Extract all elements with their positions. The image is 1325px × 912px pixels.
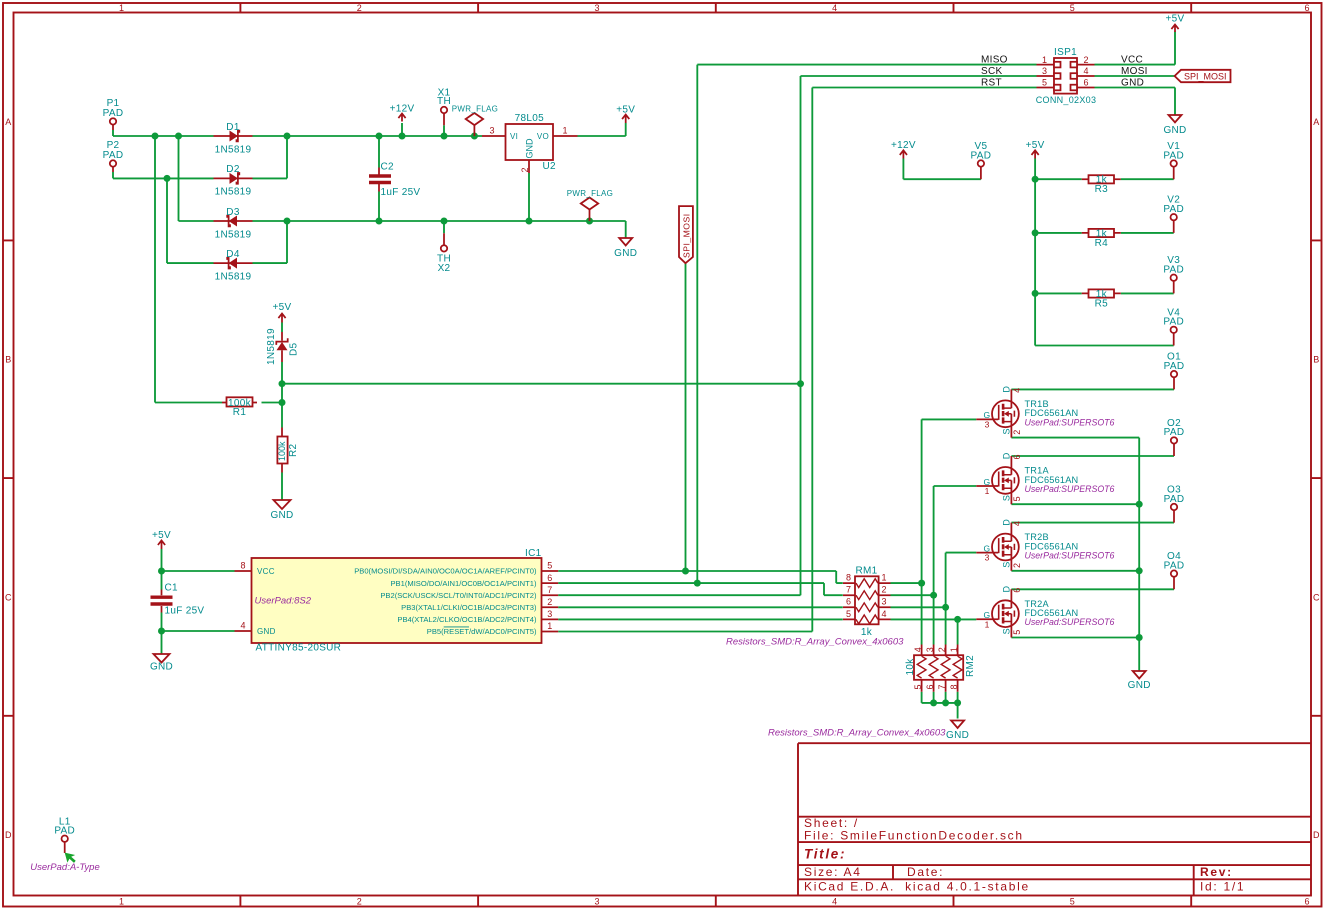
svg-text:3: 3	[985, 553, 990, 563]
svg-text:VCC: VCC	[257, 567, 275, 576]
svg-text:6: 6	[1304, 897, 1309, 907]
svg-text:2: 2	[1012, 430, 1022, 435]
svg-text:1: 1	[562, 126, 567, 136]
svg-text:+5V: +5V	[616, 105, 635, 116]
svg-text:1: 1	[985, 619, 990, 629]
svg-text:R3: R3	[1095, 184, 1109, 195]
svg-text:UserPad:SUPERSOT6: UserPad:SUPERSOT6	[1025, 484, 1115, 494]
svg-text:U2: U2	[543, 161, 557, 172]
svg-text:4: 4	[913, 647, 923, 652]
svg-text:5: 5	[547, 561, 552, 571]
svg-text:1uF 25V: 1uF 25V	[381, 187, 421, 198]
svg-text:R5: R5	[1095, 298, 1109, 309]
svg-text:10k: 10k	[905, 658, 916, 676]
svg-text:PAD: PAD	[1163, 150, 1184, 161]
svg-text:PAD: PAD	[971, 150, 992, 161]
svg-text:UserPad:A-Type: UserPad:A-Type	[30, 862, 100, 873]
svg-text:PAD: PAD	[1164, 427, 1185, 438]
svg-text:C: C	[5, 592, 12, 602]
svg-text:PB4(XTAL2/CLKO/OC1B/ADC2/PCINT: PB4(XTAL2/CLKO/OC1B/ADC2/PCINT4)	[397, 615, 537, 624]
svg-text:5: 5	[1012, 496, 1022, 501]
svg-text:GND: GND	[946, 730, 969, 741]
svg-text:+5V: +5V	[152, 530, 171, 541]
svg-text:3: 3	[925, 647, 935, 652]
svg-text:R4: R4	[1095, 238, 1109, 249]
svg-text:1: 1	[119, 3, 124, 13]
svg-text:5: 5	[1042, 78, 1047, 88]
svg-text:5: 5	[846, 609, 851, 619]
svg-text:+5V: +5V	[1166, 13, 1185, 24]
svg-text:RST: RST	[981, 77, 1002, 88]
svg-text:PAD: PAD	[1163, 204, 1184, 215]
svg-text:A: A	[5, 117, 11, 127]
svg-text:4: 4	[1012, 521, 1022, 526]
svg-text:File: SmileFunctionDecoder.sch: File: SmileFunctionDecoder.sch	[804, 829, 1024, 843]
svg-text:2: 2	[881, 585, 886, 595]
svg-text:GND: GND	[1121, 77, 1144, 88]
svg-text:MISO: MISO	[981, 55, 1008, 66]
svg-text:UserPad:SUPERSOT6: UserPad:SUPERSOT6	[1025, 551, 1115, 561]
svg-text:D: D	[1002, 386, 1012, 393]
svg-text:5: 5	[913, 684, 923, 689]
svg-text:S: S	[1002, 562, 1012, 568]
svg-text:ISP1: ISP1	[1054, 47, 1077, 58]
svg-text:PAD: PAD	[1164, 494, 1185, 505]
svg-text:PB3(XTAL1/CLKI/OC1B/ADC3/PCINT: PB3(XTAL1/CLKI/OC1B/ADC3/PCINT3)	[401, 603, 537, 612]
svg-text:UserPad:SUPERSOT6: UserPad:SUPERSOT6	[1025, 617, 1115, 627]
svg-text:GND: GND	[270, 510, 293, 521]
svg-text:1: 1	[1042, 55, 1047, 65]
svg-text:2: 2	[357, 897, 362, 907]
svg-text:1N5819: 1N5819	[266, 328, 277, 365]
svg-text:+12V: +12V	[891, 140, 916, 151]
svg-text:3: 3	[594, 3, 599, 13]
svg-text:S: S	[1002, 495, 1012, 501]
svg-text:6: 6	[1012, 588, 1022, 593]
svg-text:SPI_MOSI: SPI_MOSI	[1184, 72, 1227, 82]
svg-text:Resistors_SMD:R_Array_Convex_4: Resistors_SMD:R_Array_Convex_4x0603	[726, 636, 904, 647]
svg-text:2: 2	[1083, 55, 1088, 65]
svg-text:7: 7	[937, 684, 947, 689]
svg-text:UserPad:8S2: UserPad:8S2	[255, 596, 312, 607]
svg-text:PAD: PAD	[1164, 560, 1185, 571]
svg-text:PAD: PAD	[103, 108, 124, 119]
svg-text:100k: 100k	[277, 441, 287, 461]
svg-text:4: 4	[832, 3, 837, 13]
svg-text:+5V: +5V	[273, 302, 292, 313]
svg-text:PAD: PAD	[1164, 361, 1185, 372]
svg-text:C: C	[1313, 592, 1320, 602]
svg-text:4: 4	[881, 609, 886, 619]
svg-text:1: 1	[881, 573, 886, 583]
svg-text:VO: VO	[537, 132, 549, 141]
svg-text:Resistors_SMD:R_Array_Convex_4: Resistors_SMD:R_Array_Convex_4x0603	[768, 727, 946, 738]
svg-text:6: 6	[846, 597, 851, 607]
svg-text:1: 1	[985, 486, 990, 496]
svg-text:1: 1	[119, 897, 124, 907]
svg-text:GND: GND	[257, 627, 276, 636]
svg-text:R1: R1	[233, 407, 247, 418]
svg-text:RM1: RM1	[855, 566, 877, 577]
svg-text:R2: R2	[288, 443, 299, 457]
svg-text:A: A	[1313, 117, 1319, 127]
svg-text:D: D	[1002, 452, 1012, 459]
svg-text:6: 6	[1012, 454, 1022, 459]
svg-text:D: D	[5, 830, 12, 840]
svg-text:2: 2	[1012, 563, 1022, 568]
svg-text:1uF 25V: 1uF 25V	[165, 605, 205, 616]
svg-text:SPI_MOSI: SPI_MOSI	[681, 213, 691, 258]
svg-text:PAD: PAD	[103, 150, 124, 161]
svg-text:7: 7	[846, 585, 851, 595]
svg-text:6: 6	[547, 573, 552, 583]
svg-text:7: 7	[547, 585, 552, 595]
svg-text:3: 3	[547, 609, 552, 619]
svg-text:1N5819: 1N5819	[215, 271, 252, 282]
svg-text:MOSI: MOSI	[1121, 66, 1148, 77]
svg-text:5: 5	[1070, 897, 1075, 907]
svg-text:4: 4	[240, 621, 245, 631]
svg-text:3: 3	[985, 419, 990, 429]
svg-text:D: D	[1002, 519, 1012, 526]
svg-text:8: 8	[240, 561, 245, 571]
svg-text:Id: 1/1: Id: 1/1	[1200, 880, 1245, 894]
svg-text:GND: GND	[1163, 125, 1186, 136]
svg-text:D: D	[1002, 586, 1012, 593]
svg-text:D1: D1	[226, 122, 240, 133]
svg-text:6: 6	[1083, 78, 1088, 88]
svg-text:2: 2	[357, 3, 362, 13]
svg-text:VI: VI	[510, 132, 518, 141]
svg-text:Rev:: Rev:	[1200, 865, 1233, 879]
svg-text:X2: X2	[438, 263, 451, 274]
svg-text:D: D	[1313, 830, 1320, 840]
svg-text:3: 3	[1042, 66, 1047, 76]
svg-text:KiCad E.D.A. kicad 4.0.1-stab: KiCad E.D.A. kicad 4.0.1-stable	[804, 880, 1030, 894]
svg-text:1N5819: 1N5819	[215, 187, 252, 198]
svg-text:S: S	[1002, 428, 1012, 434]
svg-text:4: 4	[1083, 66, 1088, 76]
svg-text:UserPad:SUPERSOT6: UserPad:SUPERSOT6	[1025, 417, 1115, 427]
svg-text:3: 3	[594, 897, 599, 907]
svg-text:S: S	[1002, 628, 1012, 634]
svg-text:Title:: Title:	[804, 847, 846, 862]
svg-text:GND: GND	[150, 661, 173, 672]
svg-text:SCK: SCK	[981, 66, 1002, 77]
svg-text:VCC: VCC	[1121, 55, 1143, 66]
svg-text:PB2(SCK/USCK/SCL/T0/INT0/ADC1/: PB2(SCK/USCK/SCL/T0/INT0/ADC1/PCINT2)	[380, 591, 537, 600]
svg-text:4: 4	[832, 897, 837, 907]
svg-text:2: 2	[520, 167, 530, 172]
svg-text:6: 6	[1304, 3, 1309, 13]
svg-text:78L05: 78L05	[515, 113, 544, 124]
svg-text:D2: D2	[226, 164, 240, 175]
svg-text:1N5819: 1N5819	[215, 144, 252, 155]
svg-text:C2: C2	[381, 162, 395, 173]
svg-text:C1: C1	[165, 583, 179, 594]
svg-text:B: B	[5, 355, 11, 365]
svg-text:+5V: +5V	[1026, 140, 1045, 151]
svg-text:GND: GND	[1128, 680, 1151, 691]
svg-text:PAD: PAD	[1163, 265, 1184, 276]
svg-text:+12V: +12V	[390, 104, 415, 115]
svg-text:8: 8	[949, 684, 959, 689]
svg-text:RM2: RM2	[965, 655, 976, 677]
svg-text:3: 3	[881, 597, 886, 607]
svg-text:CONN_02X03: CONN_02X03	[1036, 95, 1097, 105]
svg-text:5: 5	[1012, 630, 1022, 635]
svg-text:GND: GND	[524, 138, 534, 159]
svg-text:8: 8	[846, 573, 851, 583]
svg-text:D5: D5	[289, 342, 300, 356]
svg-text:5: 5	[1070, 3, 1075, 13]
svg-text:B: B	[1313, 355, 1319, 365]
svg-text:PWR_FLAG: PWR_FLAG	[567, 189, 613, 198]
svg-text:D3: D3	[226, 207, 240, 218]
svg-text:1: 1	[547, 621, 552, 631]
svg-text:6: 6	[925, 684, 935, 689]
svg-text:PAD: PAD	[1163, 317, 1184, 328]
svg-text:Size: A4: Size: A4	[804, 865, 862, 879]
svg-text:TH: TH	[437, 96, 451, 107]
svg-text:PB1(MISO/DO/AIN1/OC0B/OC1A/PCI: PB1(MISO/DO/AIN1/OC0B/OC1A/PCINT1)	[390, 579, 536, 588]
svg-text:IC1: IC1	[525, 548, 542, 559]
svg-text:PB0(MOSI/DI/SDA/AIN0/OC0A/OC1A: PB0(MOSI/DI/SDA/AIN0/OC0A/OC1A/AREF/PCIN…	[354, 567, 537, 576]
svg-text:PWR_FLAG: PWR_FLAG	[452, 105, 498, 114]
svg-text:PB5(RESET/dW/ADC0/PCINT5): PB5(RESET/dW/ADC0/PCINT5)	[427, 627, 537, 636]
svg-text:PAD: PAD	[54, 826, 75, 837]
svg-text:2: 2	[547, 597, 552, 607]
svg-text:ATTINY85-20SUR: ATTINY85-20SUR	[256, 643, 342, 654]
svg-text:4: 4	[1012, 388, 1022, 393]
svg-text:D4: D4	[226, 249, 240, 260]
svg-text:GND: GND	[614, 248, 637, 259]
svg-text:2: 2	[937, 647, 947, 652]
svg-text:3: 3	[489, 126, 494, 136]
svg-text:1N5819: 1N5819	[215, 229, 252, 240]
svg-text:Date:: Date:	[907, 865, 944, 879]
svg-text:1: 1	[949, 647, 959, 652]
